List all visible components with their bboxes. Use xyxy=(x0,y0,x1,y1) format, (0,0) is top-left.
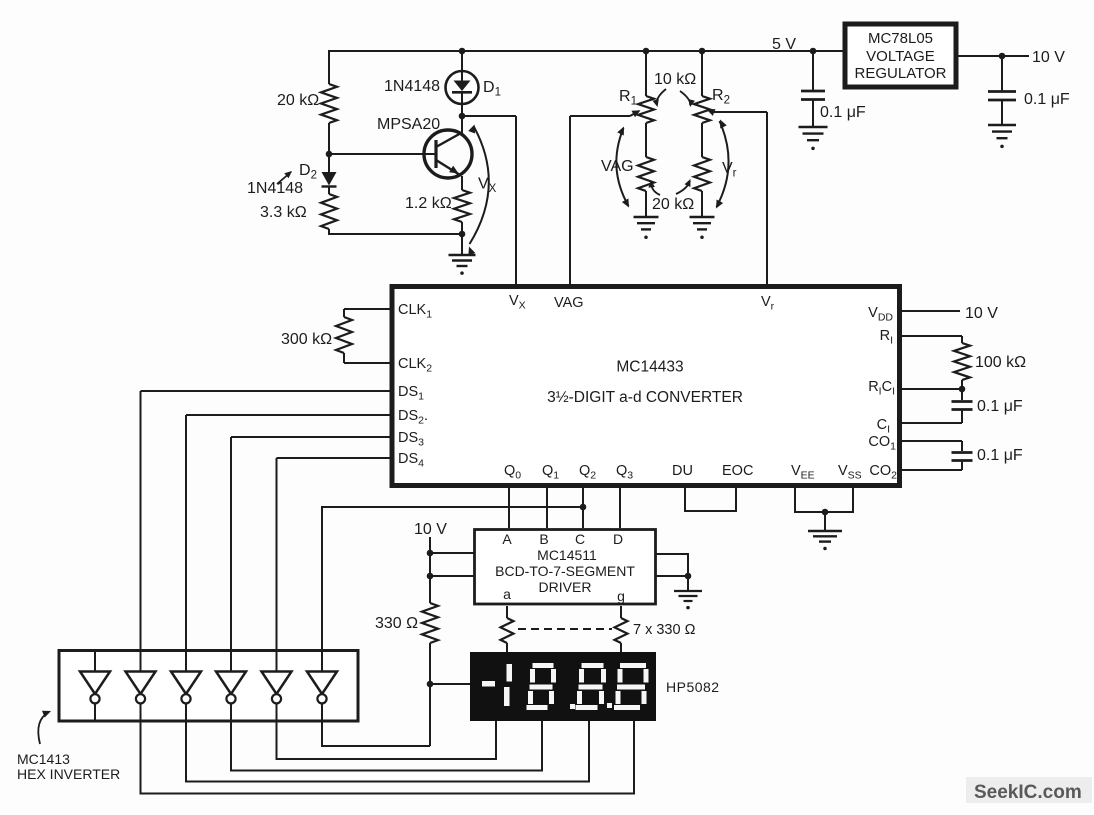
svg-text:20 kΩ: 20 kΩ xyxy=(277,92,319,109)
svg-text:0.1 μF: 0.1 μF xyxy=(820,104,866,121)
svg-text:VAG: VAG xyxy=(554,295,584,311)
svg-text:MC14511: MC14511 xyxy=(537,547,597,563)
svg-text:5 V: 5 V xyxy=(772,36,796,53)
svg-text:SeekIC.com: SeekIC.com xyxy=(974,782,1082,803)
svg-text:RICI: RICI xyxy=(868,379,895,398)
svg-text:10 V: 10 V xyxy=(965,305,998,322)
svg-text:10 V: 10 V xyxy=(414,521,447,538)
svg-text:1N4148: 1N4148 xyxy=(247,180,303,197)
svg-text:A: A xyxy=(502,531,512,547)
svg-text:10 kΩ: 10 kΩ xyxy=(654,71,696,88)
svg-text:D: D xyxy=(613,531,623,547)
svg-text:DRIVER: DRIVER xyxy=(539,579,592,595)
svg-text:MC78L05: MC78L05 xyxy=(868,30,933,47)
svg-text:10 V: 10 V xyxy=(1032,49,1065,66)
svg-text:MPSA20: MPSA20 xyxy=(377,116,440,133)
svg-text:VOLTAGE: VOLTAGE xyxy=(866,48,935,65)
svg-text:1N4148: 1N4148 xyxy=(384,78,440,95)
svg-text:3.3 kΩ: 3.3 kΩ xyxy=(260,204,307,221)
svg-text:0.1 μF: 0.1 μF xyxy=(1024,91,1070,108)
svg-text:300 kΩ: 300 kΩ xyxy=(281,331,332,348)
svg-text:20 kΩ: 20 kΩ xyxy=(652,196,694,213)
svg-text:MC1413: MC1413 xyxy=(17,751,70,767)
svg-text:100 kΩ: 100 kΩ xyxy=(975,354,1026,371)
svg-text:g: g xyxy=(617,588,625,604)
svg-text:REGULATOR: REGULATOR xyxy=(855,65,947,82)
svg-text:a: a xyxy=(503,586,511,602)
svg-text:HP5082: HP5082 xyxy=(666,679,720,695)
svg-text:B: B xyxy=(539,531,548,547)
svg-text:7 x 330 Ω: 7 x 330 Ω xyxy=(633,622,696,638)
svg-text:HEX INVERTER: HEX INVERTER xyxy=(17,766,120,782)
svg-text:BCD-TO-7-SEGMENT: BCD-TO-7-SEGMENT xyxy=(495,563,635,579)
svg-text:1.2 kΩ: 1.2 kΩ xyxy=(405,195,452,212)
svg-text:EOC: EOC xyxy=(722,463,753,479)
svg-text:DU: DU xyxy=(672,463,693,479)
svg-text:0.1 μF: 0.1 μF xyxy=(977,398,1023,415)
svg-text:3½-DIGIT a-d CONVERTER: 3½-DIGIT a-d CONVERTER xyxy=(547,389,743,406)
svg-text:DS2.: DS2. xyxy=(398,408,428,427)
svg-text:MC14433: MC14433 xyxy=(616,359,683,376)
svg-text:330 Ω: 330 Ω xyxy=(375,615,418,632)
svg-text:C: C xyxy=(575,531,585,547)
svg-text:0.1 μF: 0.1 μF xyxy=(977,447,1023,464)
